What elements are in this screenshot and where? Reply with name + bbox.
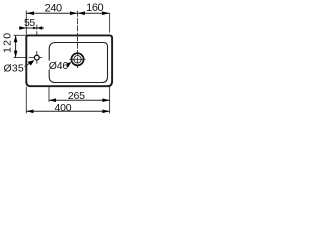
svg-text:Ø35: Ø35: [4, 62, 24, 74]
svg-text:265: 265: [68, 90, 85, 102]
svg-text:Ø46: Ø46: [49, 60, 69, 72]
svg-text:160: 160: [86, 2, 103, 14]
svg-text:240: 240: [45, 2, 62, 14]
svg-text:400: 400: [55, 102, 72, 114]
svg-text:55: 55: [24, 17, 35, 29]
svg-text:120: 120: [1, 32, 13, 53]
